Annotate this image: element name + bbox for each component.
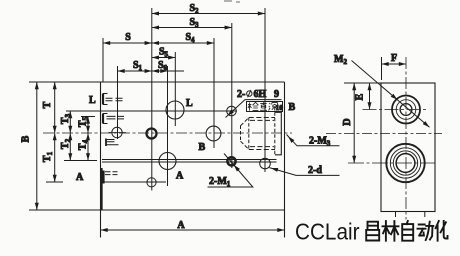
left edge thick ink segment	[101, 168, 103, 210]
top extension for D/E	[344, 82, 381, 84]
dimension S	[103, 42, 152, 44]
hole: bold ring on centerline	[147, 129, 157, 139]
svg-text:B: B	[21, 135, 32, 142]
svg-text:L: L	[186, 98, 193, 109]
dimension S2	[152, 13, 265, 15]
svg-text:2-M3: 2-M3	[309, 136, 331, 148]
检 (approx)	[248, 102, 258, 110]
svg-text:L: L	[89, 95, 96, 106]
left edge port stub 4	[102, 171, 104, 184]
svg-text:2-M1: 2-M1	[209, 176, 231, 188]
动	[418, 222, 434, 240]
svg-text:A: A	[176, 171, 184, 182]
dimension S5	[152, 57, 176, 59]
extension ticks for T chain	[46, 117, 97, 183]
svg-text:CCLair: CCLair	[295, 219, 360, 245]
vertical centerline	[405, 57, 407, 220]
left edge port stub 1	[102, 94, 104, 105]
company text "昌林自动化" drawn as vector strokes	[366, 221, 447, 241]
svg-text:B: B	[289, 102, 296, 113]
svg-text:S3: S3	[189, 17, 199, 29]
查 (approx)	[260, 102, 267, 110]
svg-text:D: D	[342, 118, 353, 125]
plate outline	[29, 82, 285, 238]
svg-text:T: T	[42, 101, 53, 108]
dashed cavity: left vertical	[248, 118, 250, 150]
dimension E	[369, 83, 371, 110]
leader 2-d	[269, 168, 339, 176]
svg-text:A: A	[76, 172, 84, 183]
leader M2	[352, 61, 430, 128]
svg-text:2-: 2-	[237, 89, 245, 100]
main horizontal centerline	[43, 132, 292, 134]
svg-text:T3: T3	[60, 113, 72, 124]
dashed cavity: chamfers	[241, 118, 249, 150]
hole: small circle left on centerline	[112, 127, 122, 137]
svg-text:T1: T1	[42, 151, 54, 162]
svg-text:F: F	[391, 53, 397, 64]
svg-text:2-d: 2-d	[308, 165, 322, 176]
svg-text:T5: T5	[78, 116, 90, 127]
dimension S3	[152, 27, 232, 29]
dimension chain T3 / T2	[69, 111, 71, 161]
dimension F	[381, 57, 383, 80]
svg-text:S5: S5	[159, 47, 169, 59]
dashed cavity: top/bottom double lines	[249, 118, 275, 150]
hole L (large, top row)	[166, 101, 184, 119]
vertical extension / center lines	[102, 38, 104, 82]
callout 2-phi6H9	[226, 100, 282, 118]
svg-text:S4: S4	[185, 32, 195, 44]
hole: 2-d	[260, 158, 271, 169]
dimension S1	[118, 70, 152, 72]
leader 2-M3	[287, 135, 340, 146]
svg-text:E: E	[355, 93, 366, 100]
svg-text:T4: T4	[78, 139, 90, 150]
svg-text:10: 10	[276, 103, 284, 112]
svg-text:B: B	[199, 142, 206, 153]
dimension B (left vertical)	[36, 82, 38, 210]
hole A (large, lower row)	[159, 153, 176, 170]
leader 2-M1	[208, 154, 253, 188]
bottom ticks	[396, 212, 425, 218]
svg-text:S2: S2	[189, 3, 199, 15]
svg-text:S: S	[125, 32, 131, 43]
svg-text:S6: S6	[158, 60, 168, 72]
lower boss circles	[396, 154, 415, 173]
side view outline	[381, 83, 435, 212]
hole: pin hole top (2-phi6H9)	[227, 106, 237, 116]
dimension chain T / T1	[54, 82, 56, 182]
dashed cavity: cone tip	[240, 126, 242, 142]
化	[436, 221, 448, 241]
hole: tapped M1 (dark ring)	[227, 157, 235, 165]
left edge port stub 3	[105, 139, 107, 147]
svg-text:M2: M2	[334, 54, 347, 66]
row lines through A-port row (doubled)	[102, 160, 277, 163]
dimension A (bottom horizontal)	[101, 229, 285, 231]
昌	[366, 222, 379, 241]
svg-text:T2: T2	[60, 138, 72, 149]
svg-text:6H: 6H	[254, 89, 267, 100]
svg-text:S1: S1	[133, 60, 143, 72]
dashed cavity: step vertical	[274, 112, 276, 155]
cavity mouth (solid hook at surface)	[275, 112, 281, 155]
row line bottom small hole	[102, 181, 167, 183]
upper boss circles	[400, 104, 412, 116]
自	[402, 221, 413, 241]
hole B (medium, centerline)	[206, 126, 221, 141]
horizontal main centerline	[326, 133, 442, 135]
深 (approx)	[269, 103, 278, 111]
svg-text:9: 9	[274, 89, 279, 100]
dimension S6	[152, 70, 184, 72]
dimension chain T5 / T4	[87, 117, 89, 161]
dimension S4	[152, 42, 214, 44]
left edge port stub 2	[102, 114, 104, 124]
hole: bottom small circle	[147, 178, 156, 187]
callout box 检查深10	[247, 102, 283, 112]
row line through L-port row	[66, 110, 237, 112]
svg-text:A: A	[177, 220, 185, 231]
林	[383, 221, 399, 241]
dimension D	[353, 83, 355, 163]
